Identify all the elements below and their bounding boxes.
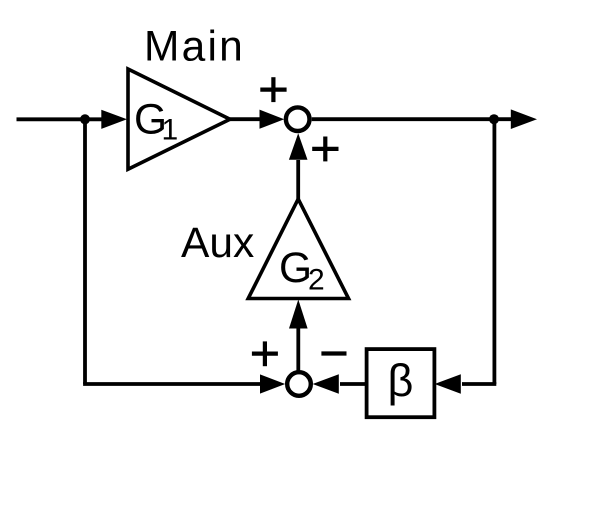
wire input [17, 117, 105, 121]
arrowhead into S1 from left [260, 110, 285, 129]
svg-text:Aux: Aux [181, 220, 254, 267]
wire output stub [494, 117, 513, 121]
svg-text:β: β [388, 355, 414, 406]
minus sign at S2 [321, 351, 346, 355]
wire left feedback vertical [83, 119, 87, 384]
output arrowhead [511, 109, 537, 129]
plus sign at S1 aux input [312, 137, 338, 162]
node output junction [489, 114, 499, 124]
wire S2 up to G2 [296, 326, 300, 372]
summing junction S1 [286, 107, 310, 131]
arrowhead into S1 from below [289, 133, 308, 160]
plus sign at S2 [252, 341, 278, 366]
wire G2 apex to S1 [296, 160, 300, 199]
wire bottom left horizontal [83, 382, 263, 386]
wire S1 to output node [312, 117, 494, 121]
arrowhead into beta box [435, 374, 461, 394]
arrowhead into S2 from right [313, 374, 339, 394]
wire beta to S2 [340, 382, 367, 386]
wire right feedback vertical [492, 119, 496, 384]
wire right feedback horizontal to beta [462, 382, 496, 386]
wire G1 to summing junction S1 [230, 117, 262, 121]
summing junction S2 [287, 372, 311, 396]
arrowhead into S2 from left [260, 374, 285, 393]
arrowhead into G1 [101, 110, 127, 129]
amplifier G2 [248, 199, 348, 299]
svg-text:1: 1 [162, 114, 179, 147]
svg-text:Main: Main [144, 24, 245, 71]
plus sign at S1 main input [260, 77, 286, 102]
svg-text:2: 2 [308, 264, 325, 297]
node input junction [80, 114, 90, 124]
amplifier G1 [128, 69, 230, 169]
beta box [367, 349, 435, 417]
arrowhead into G2 base [289, 300, 308, 329]
